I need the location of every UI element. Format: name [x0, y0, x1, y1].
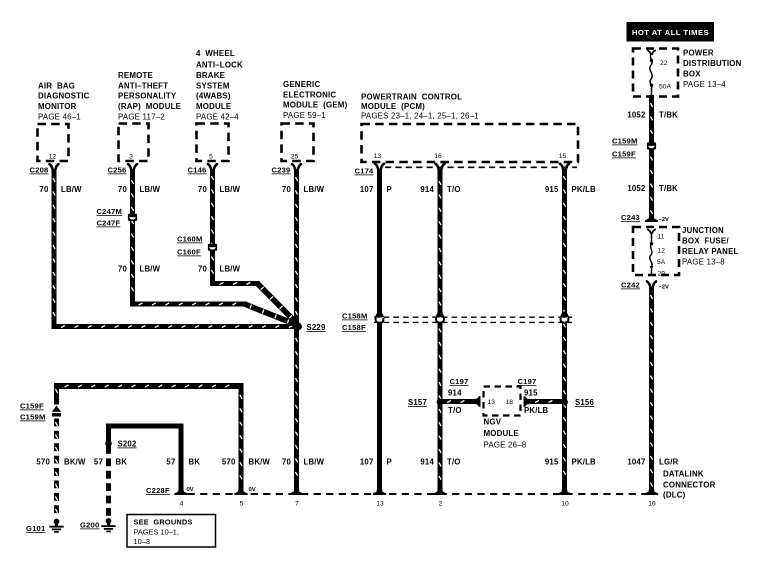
svg-text:PAGE 46–1: PAGE 46–1	[38, 112, 81, 121]
svg-text:PK/LB: PK/LB	[524, 406, 549, 415]
svg-text:MODULE (PCM): MODULE (PCM)	[361, 102, 425, 111]
svg-text:914: 914	[448, 389, 462, 398]
wire 914 T/O from PCM pin 16 to DLC pin 2	[438, 169, 443, 493]
svg-text:57: 57	[94, 458, 103, 467]
C158 bump wire1	[375, 312, 384, 317]
svg-text:LB/W: LB/W	[304, 458, 325, 467]
svg-text:2: 2	[439, 501, 443, 508]
svg-text:REMOTE: REMOTE	[118, 71, 153, 80]
svg-text:LB/W: LB/W	[61, 185, 82, 194]
svg-text:(RAP) MODULE: (RAP) MODULE	[118, 102, 181, 111]
svg-text:MODULE: MODULE	[484, 429, 519, 438]
svg-text:DIAGNOSTIC: DIAGNOSTIC	[38, 92, 90, 101]
svg-text:POWERTRAIN CONTROL: POWERTRAIN CONTROL	[361, 93, 462, 102]
svg-text:10–3: 10–3	[134, 537, 150, 546]
DLC flare pin10	[558, 488, 571, 495]
connector horns C174 pin16	[436, 164, 439, 170]
svg-text:S229: S229	[307, 323, 326, 332]
svg-text:15: 15	[559, 153, 567, 160]
svg-text:(DLC): (DLC)	[663, 491, 686, 500]
svg-text:P: P	[387, 185, 392, 194]
svg-text:BK/W: BK/W	[64, 458, 86, 467]
svg-text:–2V: –2V	[659, 217, 670, 223]
svg-text:C158F: C158F	[342, 323, 366, 332]
svg-text:C160M: C160M	[177, 235, 202, 244]
svg-text:22: 22	[660, 60, 668, 67]
svg-text:C243: C243	[621, 213, 640, 222]
svg-text:T/O: T/O	[447, 185, 461, 194]
svg-text:29: 29	[658, 271, 666, 278]
connector C242	[647, 282, 650, 288]
svg-text:C228F: C228F	[146, 486, 170, 495]
svg-text:LB/W: LB/W	[140, 265, 161, 274]
svg-text:PAGE 26–8: PAGE 26–8	[484, 441, 527, 450]
svg-text:0V: 0V	[187, 487, 194, 493]
connector horns C146	[208, 164, 211, 170]
svg-text:PK/LB: PK/LB	[572, 458, 597, 467]
wire 70 LB/W from C208 down and right to S229 (bus)	[52, 169, 57, 329]
svg-text:C158M: C158M	[342, 312, 367, 321]
svg-text:PERSONALITY: PERSONALITY	[118, 92, 177, 101]
DLC flare pin4	[174, 488, 187, 495]
splice S157	[437, 399, 444, 406]
svg-text:MODULE (GEM): MODULE (GEM)	[283, 101, 348, 110]
connector C159M/C159F (right col)	[647, 142, 656, 149]
wire 914 T/O branch to NGV	[442, 399, 476, 404]
svg-text:T/BK: T/BK	[659, 184, 678, 193]
svg-text:914: 914	[420, 185, 434, 194]
svg-text:C197: C197	[518, 377, 537, 386]
svg-text:T/O: T/O	[448, 406, 462, 415]
svg-text:NGV: NGV	[484, 418, 502, 427]
svg-text:GENERIC: GENERIC	[283, 80, 320, 89]
connector C243	[645, 215, 658, 222]
svg-text:C247M: C247M	[97, 207, 122, 216]
svg-text:70: 70	[282, 185, 292, 194]
svg-text:915: 915	[545, 185, 559, 194]
svg-text:S202: S202	[118, 440, 137, 449]
ground G200	[106, 518, 112, 524]
svg-text:4 WHEEL: 4 WHEEL	[196, 49, 235, 58]
svg-text:PAGES 10–1,: PAGES 10–1,	[134, 528, 179, 537]
GEM module box	[282, 124, 314, 162]
DLC connector dashed line	[175, 493, 658, 495]
PCM box	[362, 124, 579, 162]
svg-text:70: 70	[282, 458, 292, 467]
svg-text:(4WABS): (4WABS)	[196, 92, 231, 101]
wire 570 BK/W ground bus	[54, 383, 244, 389]
svg-text:BK: BK	[189, 458, 201, 467]
svg-text:LB/W: LB/W	[140, 185, 161, 194]
svg-text:BRAKE: BRAKE	[196, 71, 225, 80]
connector horns C239	[292, 164, 295, 170]
svg-text:5: 5	[209, 153, 213, 160]
svg-text:915: 915	[545, 458, 559, 467]
svg-text:PAGE 42–4: PAGE 42–4	[196, 112, 239, 121]
DLC flare pin7	[290, 488, 303, 495]
svg-text:LB/W: LB/W	[220, 265, 241, 274]
svg-text:C159F: C159F	[612, 150, 636, 159]
svg-text:HOT AT ALL TIMES: HOT AT ALL TIMES	[632, 28, 709, 37]
RAP module box	[119, 124, 149, 162]
svg-text:G101: G101	[26, 524, 46, 533]
svg-text:DISTRIBUTION: DISTRIBUTION	[683, 59, 742, 68]
svg-text:915: 915	[524, 389, 538, 398]
svg-text:BK/W: BK/W	[249, 458, 271, 467]
svg-text:P: P	[387, 458, 392, 467]
svg-text:MONITOR: MONITOR	[38, 102, 77, 111]
svg-text:5: 5	[240, 501, 244, 508]
svg-text:1047: 1047	[627, 458, 645, 467]
svg-text:C174: C174	[355, 167, 375, 176]
svg-text:C208: C208	[30, 166, 49, 175]
svg-text:C247F: C247F	[97, 219, 121, 228]
svg-text:BK: BK	[116, 458, 128, 467]
svg-text:50A: 50A	[659, 84, 671, 91]
svg-text:0V: 0V	[249, 487, 256, 493]
svg-text:MODULE: MODULE	[196, 102, 231, 111]
svg-text:PAGE 13–4: PAGE 13–4	[683, 80, 726, 89]
svg-text:C239: C239	[272, 166, 291, 175]
svg-text:BOX: BOX	[683, 70, 701, 79]
svg-text:70: 70	[118, 265, 128, 274]
svg-text:BOX FUSE/: BOX FUSE/	[682, 237, 729, 246]
svg-text:C159F: C159F	[20, 402, 44, 411]
svg-text:107: 107	[360, 185, 374, 194]
svg-text:ANTI–LOCK: ANTI–LOCK	[196, 61, 243, 70]
svg-text:PAGE 59–1: PAGE 59–1	[283, 111, 326, 120]
svg-text:SYSTEM: SYSTEM	[196, 81, 230, 90]
svg-text:T/BK: T/BK	[659, 111, 678, 120]
wire 915 PK/LB branch from NGV	[524, 396, 531, 406]
svg-text:C159M: C159M	[612, 137, 637, 146]
C158 bump wire3	[560, 312, 569, 317]
DLC flare pin5	[234, 488, 247, 495]
svg-text:JUNCTION: JUNCTION	[682, 226, 724, 235]
svg-text:RELAY PANEL: RELAY PANEL	[682, 247, 739, 256]
svg-text:C242: C242	[621, 281, 640, 290]
svg-text:570: 570	[36, 458, 50, 467]
svg-text:5A: 5A	[657, 259, 666, 266]
svg-text:ANTI–THEFT: ANTI–THEFT	[118, 81, 168, 90]
connector horns C208	[50, 164, 53, 170]
connector horns C174 pin13	[375, 164, 378, 170]
svg-text:12: 12	[658, 248, 666, 255]
svg-text:PAGES 23–1, 24–1, 25–1, 26–1: PAGES 23–1, 24–1, 25–1, 26–1	[361, 112, 479, 121]
svg-text:C256: C256	[108, 166, 127, 175]
dashed wire 570 BK/W to G101	[54, 419, 59, 518]
svg-text:CONNECTOR: CONNECTOR	[663, 480, 716, 489]
svg-text:4: 4	[180, 501, 184, 508]
C174 connector dashed line	[385, 166, 577, 168]
svg-text:S157: S157	[408, 398, 427, 407]
svg-text:ELECTRONIC: ELECTRONIC	[283, 90, 336, 99]
svg-text:LB/W: LB/W	[304, 185, 325, 194]
4WABS module box	[197, 124, 229, 162]
svg-text:3: 3	[129, 153, 133, 160]
connector C159F/C159M (left)	[52, 406, 61, 412]
svg-text:C160F: C160F	[177, 248, 201, 257]
svg-text:70: 70	[118, 185, 128, 194]
svg-text:C197: C197	[450, 377, 469, 386]
wire 70 LB/W from C146 down, right, diagonal to S229	[210, 169, 215, 286]
C158 bump wire2	[435, 312, 444, 317]
connector C160M/C160F	[208, 244, 217, 251]
svg-text:10: 10	[561, 501, 569, 508]
svg-text:13: 13	[488, 399, 496, 406]
svg-text:18: 18	[506, 399, 514, 406]
svg-text:11: 11	[658, 234, 665, 241]
svg-text:12: 12	[49, 153, 57, 160]
DLC flare pin2	[433, 488, 446, 495]
NGV module box	[484, 387, 521, 416]
svg-text:7: 7	[295, 501, 299, 508]
wire 70 LB/W from C239 (GEM) down through S229 to DLC pin 7	[294, 169, 299, 492]
svg-text:PK/LB: PK/LB	[572, 185, 597, 194]
connector horns C256	[128, 164, 131, 170]
svg-text:PAGE 117–2: PAGE 117–2	[118, 112, 165, 121]
DLC flare pin16	[645, 488, 658, 495]
air bag module box	[38, 124, 69, 161]
svg-text:16: 16	[648, 501, 656, 508]
svg-text:16: 16	[434, 153, 442, 160]
svg-text:S156: S156	[575, 398, 594, 407]
svg-text:–2V: –2V	[659, 285, 670, 291]
see grounds note box	[127, 515, 216, 548]
svg-text:T/O: T/O	[447, 458, 461, 467]
fuse 22 50A in PDB	[648, 51, 651, 55]
svg-text:70: 70	[198, 185, 208, 194]
svg-text:PAGE 13–8: PAGE 13–8	[682, 258, 725, 267]
svg-text:107: 107	[360, 458, 374, 467]
dashed wire 57 BK to G200	[106, 446, 111, 517]
svg-text:13: 13	[374, 153, 382, 160]
svg-text:25: 25	[291, 153, 299, 160]
svg-text:DATALINK: DATALINK	[663, 470, 704, 479]
C158M/C158F in-line connector double dashed line	[374, 316, 572, 318]
svg-text:13: 13	[376, 501, 384, 508]
wire 1052 T/BK upper	[649, 95, 654, 215]
HOT AT ALL TIMES box	[627, 22, 715, 42]
svg-text:G200: G200	[80, 521, 99, 530]
svg-text:POWER: POWER	[683, 49, 714, 58]
connector C247M/C247F	[128, 214, 137, 221]
splice S229	[294, 323, 302, 331]
wire 70 LB/W from C256 down, right, diagonal to S229	[130, 169, 135, 307]
power distribution box	[633, 49, 678, 97]
splice S156	[561, 399, 568, 406]
wire 107 P from PCM pin 13 to DLC pin 13	[377, 169, 382, 493]
svg-text:914: 914	[420, 458, 434, 467]
svg-text:LB/W: LB/W	[220, 185, 241, 194]
svg-text:C159M: C159M	[20, 413, 45, 422]
svg-text:57: 57	[166, 458, 175, 467]
splice S202	[105, 440, 112, 447]
junction box fuse/relay panel	[633, 227, 679, 275]
svg-text:570: 570	[222, 458, 236, 467]
DLC flare pin13	[373, 488, 386, 495]
svg-text:70: 70	[198, 265, 208, 274]
wire 1047 LG/R lower	[649, 287, 654, 493]
svg-text:SEE GROUNDS: SEE GROUNDS	[134, 518, 193, 527]
svg-text:C146: C146	[188, 166, 207, 175]
wire 915 PK/LB from PCM pin 15 to DLC pin 10	[562, 169, 567, 493]
connector horns C174 pin15	[560, 164, 563, 170]
svg-text:AIR BAG: AIR BAG	[38, 81, 75, 90]
wire 57 BK from DLC pin 4 up and over to S202	[109, 426, 182, 492]
ground G101	[54, 519, 60, 525]
svg-text:70: 70	[39, 185, 49, 194]
fuse 12 5A in junction box	[648, 230, 651, 234]
svg-text:1052: 1052	[627, 111, 646, 120]
svg-text:LG/R: LG/R	[659, 458, 679, 467]
svg-text:1052: 1052	[627, 184, 646, 193]
